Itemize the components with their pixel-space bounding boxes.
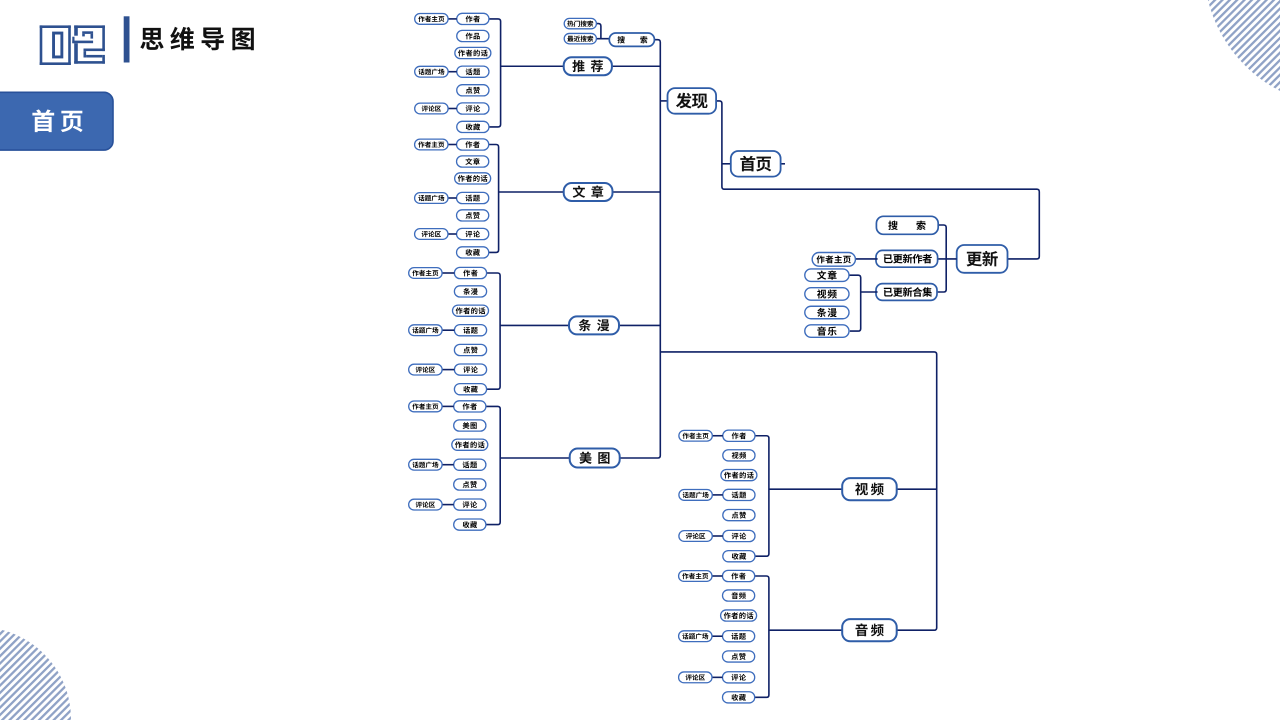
node 热门搜索 [564, 18, 596, 28]
node 条漫 leaf 话题 [454, 325, 486, 336]
wire 美图 作者主页 link [442, 405, 454, 407]
node 美图 leaf 作者 [454, 401, 486, 412]
node 条漫 leaf 作者的话 [453, 305, 489, 316]
wire bracket 已更新合集 children [849, 275, 878, 331]
wire 美图 评论区 link [442, 504, 454, 506]
wire bracket 视频 leaves [755, 436, 769, 556]
node 推荐 [564, 57, 612, 75]
node 文章 话题广场 [415, 193, 448, 204]
wire 作者主页 to 已更新作者 [855, 258, 877, 260]
wire trunk to 视频音频 subtree [660, 352, 936, 630]
node 发现 root [668, 88, 717, 114]
node 推荐 leaf 点赞 [457, 85, 489, 96]
wire 音频 to bracket [769, 629, 842, 631]
wire 音频 评论区 link [712, 676, 723, 678]
node 音频 [842, 619, 897, 641]
node 美图 leaf 美图 [454, 420, 486, 431]
node 条漫 [569, 316, 619, 334]
node 音频 leaf 评论 [723, 672, 755, 683]
decorative striped circle top-right [1204, 0, 1280, 106]
node 文章 作者主页 [415, 139, 448, 150]
wire 推荐 话题广场 link [448, 71, 457, 73]
node 首页 [731, 151, 781, 177]
node 美图 评论区 [409, 499, 442, 510]
tab button 首页 [0, 92, 113, 150]
wire 文章 to bracket [499, 191, 564, 193]
node 推荐 leaf 作者的话 [455, 47, 491, 58]
node 推荐 leaf 收藏 [457, 121, 489, 132]
wire 视频 stub [897, 488, 937, 490]
node 视频 update-leaf [805, 288, 849, 301]
wire bracket 文章 leaves [489, 145, 499, 253]
node 文章 leaf 作者 [457, 139, 489, 150]
node 视频 leaf 评论 [723, 530, 755, 541]
node 条漫 update-leaf [805, 306, 849, 319]
wire 视频 作者主页 link [712, 435, 723, 437]
wire bracket 音频 leaves [755, 576, 769, 697]
node 音频 leaf 作者的话 [721, 610, 757, 621]
node 文章 leaf 话题 [457, 192, 489, 203]
node 条漫 作者主页 [409, 268, 442, 279]
node 推荐 话题广场 [415, 66, 448, 77]
wire bracket 推荐 leaves [489, 19, 501, 127]
wire 推荐 to bracket [501, 65, 564, 67]
wire 视频 话题广场 link [712, 494, 723, 496]
node 音频 leaf 点赞 [723, 651, 755, 662]
node 最近搜索 [564, 33, 596, 43]
wire 推荐 作者主页 link [448, 18, 457, 20]
node 音频 leaf 作者 [723, 570, 755, 581]
wire trunk to 文章 [613, 191, 661, 193]
node 视频 leaf 视频 [723, 450, 755, 461]
node 美图 leaf 作者的话 [452, 439, 488, 450]
wire 视频 to bracket [769, 488, 842, 490]
wire bracket 条漫 leaves [487, 273, 501, 389]
wire 条漫 作者主页 link [442, 272, 454, 274]
wire 音频 话题广场 link [712, 635, 723, 637]
node 推荐 leaf 作品 [457, 30, 489, 41]
node 视频 leaf 话题 [723, 489, 755, 500]
node 音频 leaf 话题 [723, 631, 755, 642]
title separator bar [124, 16, 130, 62]
wire 美图 话题广场 link [442, 464, 454, 466]
wire 推荐 评论区 link [448, 108, 457, 110]
node 视频 leaf 作者 [723, 430, 755, 441]
node 音频 leaf 收藏 [723, 692, 755, 703]
node 视频 [842, 478, 897, 500]
wire main trunk [620, 40, 661, 458]
node 美图 话题广场 [409, 459, 442, 470]
node 视频 评论区 [679, 531, 712, 542]
wire 条漫 to bracket [500, 324, 569, 326]
node 美图 leaf 话题 [454, 459, 486, 470]
node 美图 [570, 449, 620, 468]
node 音频 评论区 [679, 672, 712, 683]
wire trunk to 发现 [660, 100, 667, 102]
node 视频 作者主页 [679, 430, 712, 441]
wire nub right of 首页 [781, 163, 785, 165]
node 音乐 update-leaf [805, 325, 849, 338]
node 文章 leaf 收藏 [457, 247, 489, 258]
node 视频 leaf 收藏 [723, 551, 755, 562]
node 条漫 leaf 收藏 [454, 384, 486, 395]
node 视频 leaf 点赞 [723, 510, 755, 521]
node 美图 leaf 收藏 [454, 519, 486, 530]
node 更新 [957, 245, 1008, 273]
node 音频 作者主页 [679, 571, 712, 582]
node 美图 leaf 点赞 [454, 479, 486, 490]
wire bracket 热门/最近搜索 [596, 24, 609, 39]
node 文章 leaf 评论 [457, 228, 489, 239]
node 搜索 top [609, 33, 654, 46]
wire 音频 作者主页 link [712, 575, 723, 577]
node 推荐 leaf 话题 [457, 66, 489, 77]
decorative striped circle bottom-left [0, 627, 71, 720]
node 条漫 话题广场 [409, 325, 442, 336]
node 文章 leaf 点赞 [457, 210, 489, 221]
wire 文章 话题广场 link [448, 197, 457, 199]
node 音频 话题广场 [679, 631, 712, 642]
wire 美图 to bracket [500, 457, 570, 459]
wire stub to 首页 [722, 163, 731, 165]
node 视频 leaf 作者的话 [721, 470, 757, 481]
node 条漫 leaf 作者 [454, 267, 486, 278]
node 搜索 update [876, 216, 938, 234]
node 推荐 leaf 作者 [457, 13, 489, 24]
logo digit 0 [40, 25, 71, 65]
node 已更新作者 [876, 250, 938, 267]
node 文章 update-leaf [805, 269, 849, 282]
node 已更新合集 [876, 284, 937, 301]
node 作者主页 update [812, 253, 855, 267]
node 文章 评论区 [415, 229, 448, 240]
wire trunk to 条漫 [619, 324, 660, 326]
node 文章 leaf 作者的话 [455, 173, 491, 184]
wire 文章 评论区 link [448, 233, 457, 235]
title 思维导图 [140, 27, 254, 51]
node 音频 leaf 音频 [723, 590, 755, 601]
node 美图 leaf 评论 [454, 499, 486, 510]
wire 条漫 话题广场 link [442, 329, 454, 331]
node 条漫 评论区 [409, 364, 442, 375]
node 文章 leaf 文章 [457, 156, 489, 167]
wire 视频 评论区 link [712, 535, 723, 537]
wire bracket 更新 children [938, 225, 957, 292]
node 条漫 leaf 评论 [454, 364, 486, 375]
wire 条漫 评论区 link [442, 369, 454, 371]
node 美图 作者主页 [409, 401, 442, 412]
node 条漫 leaf 点赞 [454, 344, 486, 355]
node 推荐 leaf 评论 [457, 103, 489, 114]
wire trunk to 推荐 [612, 65, 660, 67]
wire 文章 作者主页 link [448, 144, 457, 146]
node 推荐 作者主页 [415, 14, 448, 25]
node 推荐 评论区 [415, 103, 448, 114]
node 文章 [564, 183, 613, 201]
logo digit 2 [72, 25, 105, 63]
wire bracket 美图 leaves [486, 406, 500, 524]
wire 发现 right subtree [716, 101, 1039, 259]
node 条漫 leaf 条漫 [454, 286, 486, 297]
node 视频 话题广场 [679, 490, 712, 501]
